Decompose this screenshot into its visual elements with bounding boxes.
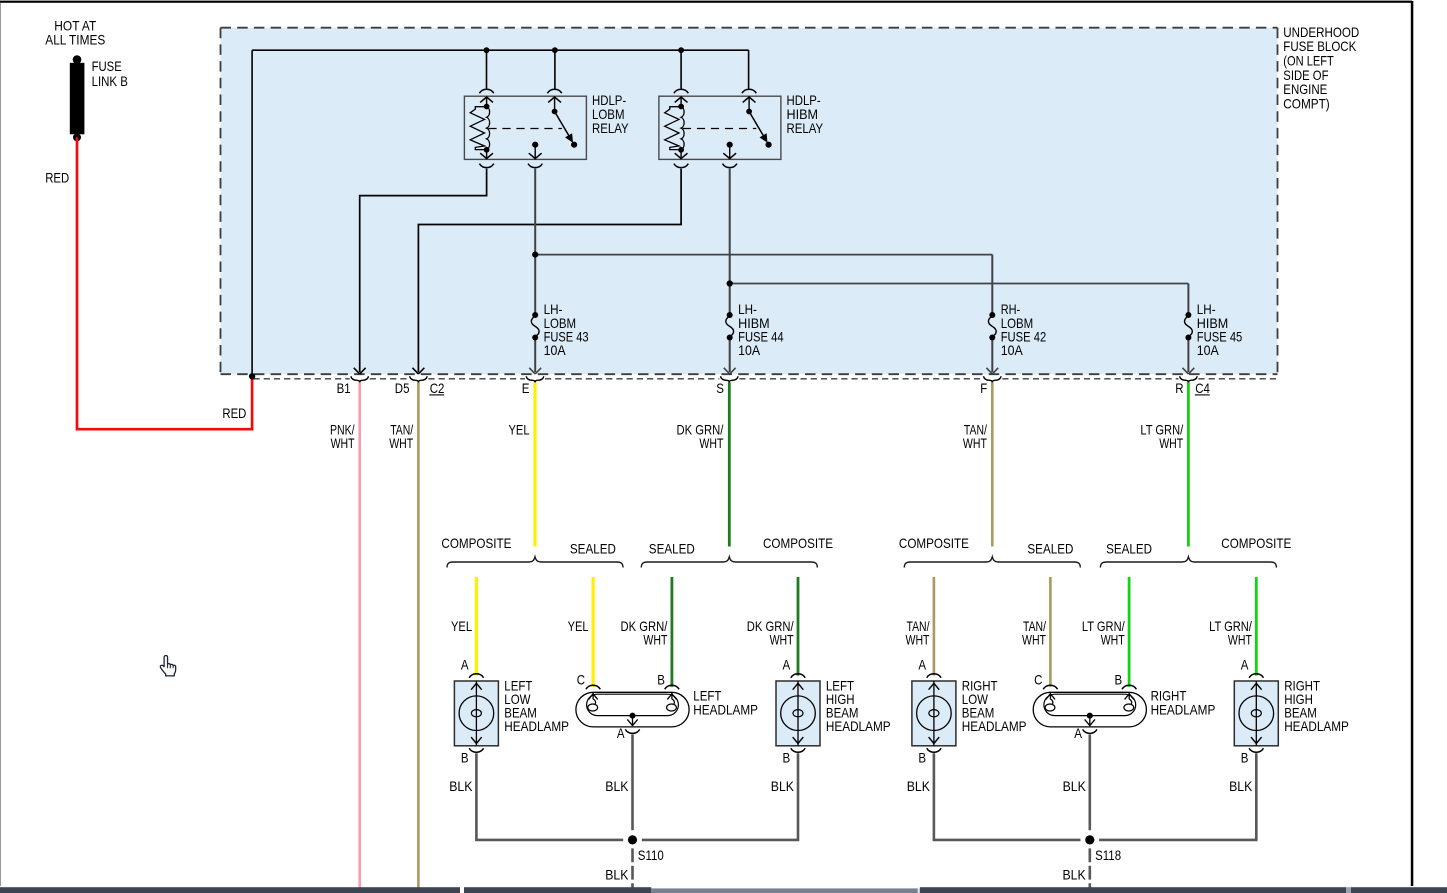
wire TAN/WHT wire to right headlamp C bbox=[1049, 577, 1052, 687]
wire BLK below S110 (dashed continuation) bbox=[631, 848, 634, 893]
label YEL (left sealed C) bbox=[568, 619, 589, 634]
wire BLK from right headlamp A to S118 bbox=[1089, 734, 1092, 830]
label: HOT AT ALL TIMES bbox=[45, 18, 105, 47]
svg-text:WHT: WHT bbox=[389, 436, 413, 451]
label pin A of LEFT LOW BEAM HEADLAMP bbox=[461, 657, 469, 672]
svg-text:E: E bbox=[522, 381, 530, 396]
svg-text:BLK: BLK bbox=[907, 779, 930, 794]
wire YEL wire to left low beam A bbox=[475, 577, 478, 676]
svg-text:B: B bbox=[918, 751, 926, 766]
label LT GRN/WHT (right high A) bbox=[1209, 619, 1252, 648]
svg-text:R: R bbox=[1175, 381, 1183, 396]
svg-text:B: B bbox=[1115, 672, 1123, 687]
svg-text:BLK: BLK bbox=[605, 868, 628, 883]
label pin B of RIGHT LOW BEAM HEADLAMP bbox=[918, 751, 926, 766]
connector pin F bbox=[984, 376, 1002, 382]
connector pin E bbox=[526, 376, 544, 382]
wire: B+ bus inside fuse block bbox=[252, 50, 748, 376]
label pin C of RIGHT HEADLAMP bbox=[1034, 672, 1042, 687]
label LT GRN/WHT bbox=[1140, 423, 1183, 452]
svg-text:BLK: BLK bbox=[1063, 779, 1086, 794]
label LT GRN/WHT (right sealed B) bbox=[1082, 619, 1125, 648]
fuse FUSE 42 (RHLOBM) 10A bbox=[988, 312, 996, 341]
label BLK (S110) bbox=[605, 868, 628, 883]
wire: branch from E to RH-LOBM fuse (F) bbox=[535, 255, 998, 374]
wire RED from fuse link to fuse block B1 feed bbox=[77, 137, 252, 429]
label DK GRN/WHT (left high A) bbox=[747, 619, 794, 648]
label: FUSE LINK B bbox=[92, 59, 128, 89]
wire DK GRN/WHT from S bbox=[728, 382, 731, 546]
node: junction dot on S wire bbox=[727, 280, 733, 286]
svg-text:HEADLAMP: HEADLAMP bbox=[1284, 719, 1349, 734]
svg-text:COMPT): COMPT) bbox=[1283, 96, 1329, 111]
label B1 bbox=[337, 381, 351, 396]
svg-text:COMPOSITE: COMPOSITE bbox=[899, 536, 969, 551]
lamp RIGHT HIGH BEAM HEADLAMP bbox=[1234, 674, 1278, 752]
svg-text:YEL: YEL bbox=[509, 423, 530, 438]
label pin A of LEFT HEADLAMP bbox=[617, 726, 625, 741]
label BLK (left high) bbox=[771, 779, 794, 794]
wire BLK from right low beam B to S118 bbox=[934, 753, 1081, 840]
svg-text:10A: 10A bbox=[544, 343, 567, 358]
wire: LOBM relay coil to connector B1 bbox=[354, 169, 487, 374]
label pin A of RIGHT HIGH BEAM HEADLAMP bbox=[1241, 657, 1249, 672]
splice brace: F wire COMPOSITE/SEALED bbox=[904, 557, 1080, 568]
svg-text:WHT: WHT bbox=[643, 633, 667, 648]
label DK GRN/WHT (left sealed B) bbox=[621, 619, 668, 648]
svg-text:10A: 10A bbox=[1001, 343, 1024, 358]
wire PNK/WHT from B1 bbox=[358, 382, 361, 888]
label C2 (connector name, underlined) bbox=[429, 381, 444, 396]
svg-text:A: A bbox=[918, 657, 926, 672]
label: HDLP-LOBM RELAY bbox=[592, 93, 629, 136]
label SEALED (right headlamp high) bbox=[1106, 542, 1152, 557]
lamp LEFT HEADLAMP (sealed beam) bbox=[576, 685, 689, 733]
svg-text:RELAY: RELAY bbox=[592, 121, 629, 136]
fuse FUSE 45 (LHHIBM) 10A bbox=[1185, 312, 1193, 341]
svg-text:(ON LEFT: (ON LEFT bbox=[1283, 54, 1334, 69]
label COMPOSITE (right low) bbox=[899, 536, 969, 551]
wire: LOBM relay output to LH-LOBM fuse and connector E bbox=[529, 169, 541, 374]
svg-text:A: A bbox=[1074, 726, 1082, 741]
label pin A of LEFT HIGH BEAM HEADLAMP bbox=[783, 657, 791, 672]
label D5 bbox=[395, 381, 410, 396]
connector pin R bbox=[1180, 376, 1198, 382]
svg-text:D5: D5 bbox=[395, 381, 410, 396]
svg-text:WHT: WHT bbox=[1101, 633, 1125, 648]
label: LH HIBM FUSE 45 10A bbox=[1197, 302, 1243, 358]
wire TAN/WHT from D5 bbox=[417, 382, 420, 888]
label pin B of LEFT HEADLAMP bbox=[657, 672, 665, 687]
label BLK (right low) bbox=[907, 779, 930, 794]
lamp LEFT LOW BEAM HEADLAMP bbox=[454, 674, 498, 752]
svg-text:C: C bbox=[577, 672, 585, 687]
svg-text:WHT: WHT bbox=[963, 436, 987, 451]
label: LEFT HEADLAMP bbox=[693, 689, 758, 718]
label YEL bbox=[509, 423, 530, 438]
label pin A of RIGHT LOW BEAM HEADLAMP bbox=[918, 657, 926, 672]
svg-text:HEADLAMP: HEADLAMP bbox=[504, 719, 569, 734]
label RED (upper) bbox=[45, 170, 69, 185]
svg-text:RED: RED bbox=[222, 406, 246, 421]
svg-text:BLK: BLK bbox=[1229, 779, 1252, 794]
lamp LEFT HIGH BEAM HEADLAMP bbox=[776, 674, 820, 752]
svg-text:LINK B: LINK B bbox=[92, 74, 128, 89]
svg-text:SIDE OF: SIDE OF bbox=[1283, 68, 1328, 83]
connector pin S bbox=[721, 376, 739, 382]
svg-text:B: B bbox=[1241, 751, 1249, 766]
svg-text:BLK: BLK bbox=[605, 779, 628, 794]
label: LEFT HIGH BEAM HEADLAMP bbox=[826, 678, 891, 734]
wire: HIBM relay coil to connector D5 bbox=[413, 169, 682, 374]
label DK GRN/WHT bbox=[677, 423, 724, 452]
svg-text:A: A bbox=[617, 726, 625, 741]
svg-text:C2: C2 bbox=[430, 381, 445, 396]
fuse link B bbox=[70, 55, 85, 141]
svg-text:HDLP-: HDLP- bbox=[592, 93, 626, 108]
label RED (lower) bbox=[222, 406, 246, 421]
svg-text:WHT: WHT bbox=[331, 436, 355, 451]
splice brace: S wire SEALED/COMPOSITE bbox=[641, 557, 817, 568]
connector pin D5 bbox=[410, 376, 428, 382]
wire TAN/WHT wire to right low beam A bbox=[933, 577, 936, 676]
wire BLK from left low beam B to S110 bbox=[476, 753, 623, 840]
lamp RIGHT HEADLAMP (sealed beam) bbox=[1033, 685, 1146, 733]
label BLK (left low) bbox=[449, 779, 472, 794]
svg-text:RELAY: RELAY bbox=[787, 121, 824, 136]
wire YEL from E bbox=[533, 382, 536, 546]
wire: branch from S to LH-HIBM fuse (R) bbox=[730, 284, 1195, 375]
svg-text:B: B bbox=[461, 751, 469, 766]
label S bbox=[716, 381, 724, 396]
label C4 (connector name, underlined) bbox=[1195, 381, 1210, 396]
label BLK (right headlamp) bbox=[1063, 779, 1086, 794]
label COMPOSITE (left low) bbox=[441, 536, 511, 551]
svg-text:WHT: WHT bbox=[906, 633, 930, 648]
wire TAN/WHT from F bbox=[991, 382, 994, 546]
svg-text:ALL TIMES: ALL TIMES bbox=[45, 32, 105, 47]
fuse FUSE 43 (LHLOBM) 10A bbox=[531, 312, 539, 341]
label TAN/WHT (right sealed C) bbox=[1022, 619, 1046, 648]
svg-text:FUSE BLOCK: FUSE BLOCK bbox=[1283, 39, 1356, 54]
svg-text:YEL: YEL bbox=[451, 619, 472, 634]
svg-text:C4: C4 bbox=[1195, 381, 1210, 396]
label PNK/WHT bbox=[330, 423, 355, 452]
node: bus junction dots bbox=[484, 47, 684, 53]
svg-text:COMPOSITE: COMPOSITE bbox=[763, 536, 833, 551]
label R bbox=[1175, 381, 1183, 396]
label pin A of RIGHT HEADLAMP bbox=[1074, 726, 1082, 741]
label BLK (right high) bbox=[1229, 779, 1252, 794]
svg-text:A: A bbox=[1241, 657, 1249, 672]
svg-text:HOT AT: HOT AT bbox=[54, 18, 96, 33]
label S118 bbox=[1095, 848, 1121, 863]
wire LT GRN/WHT from R bbox=[1187, 382, 1190, 546]
svg-text:HDLP-: HDLP- bbox=[787, 93, 821, 108]
wire: HIBM relay output to LH-HIBM fuse and connector S bbox=[724, 169, 736, 374]
relay HDLP-HIBM RELAY bbox=[659, 89, 781, 167]
svg-text:WHT: WHT bbox=[1022, 633, 1046, 648]
svg-text:WHT: WHT bbox=[1159, 436, 1183, 451]
label YEL (left low) bbox=[451, 619, 472, 634]
svg-text:SEALED: SEALED bbox=[570, 542, 616, 557]
label SEALED (left headlamp high) bbox=[649, 542, 695, 557]
label TAN/WHT (F) bbox=[963, 423, 987, 452]
svg-text:S: S bbox=[716, 381, 724, 396]
svg-text:ENGINE: ENGINE bbox=[1283, 82, 1327, 97]
label TAN/WHT bbox=[389, 423, 413, 452]
relay HDLP-LOBM RELAY bbox=[464, 89, 586, 167]
wire YEL wire to left headlamp C bbox=[591, 577, 594, 687]
svg-text:BLK: BLK bbox=[1063, 868, 1086, 883]
label: RIGHT HEADLAMP bbox=[1151, 689, 1216, 718]
label pin C of LEFT HEADLAMP bbox=[577, 672, 585, 687]
fuse FUSE 44 (LHHIBM) 10A bbox=[726, 312, 734, 341]
label pin B of RIGHT HIGH BEAM HEADLAMP bbox=[1241, 751, 1249, 766]
label S110 bbox=[638, 848, 664, 863]
svg-text:S110: S110 bbox=[638, 848, 664, 863]
svg-text:B: B bbox=[783, 751, 791, 766]
label: RIGHT LOW BEAM HEADLAMP bbox=[962, 678, 1027, 734]
svg-text:A: A bbox=[783, 657, 791, 672]
lamp RIGHT LOW BEAM HEADLAMP bbox=[912, 674, 956, 752]
svg-text:HEADLAMP: HEADLAMP bbox=[693, 702, 758, 717]
node: junction dot on E wire bbox=[532, 252, 538, 258]
label pin B of LEFT HIGH BEAM HEADLAMP bbox=[783, 751, 791, 766]
svg-text:10A: 10A bbox=[1197, 343, 1220, 358]
wire LT GRN/WHT wire to right headlamp B bbox=[1128, 577, 1131, 687]
node: splice S118 bbox=[1085, 835, 1094, 844]
svg-text:FUSE: FUSE bbox=[92, 59, 122, 74]
svg-text:YEL: YEL bbox=[568, 619, 589, 634]
label COMPOSITE (left high) bbox=[763, 536, 833, 551]
label F bbox=[980, 381, 987, 396]
label E bbox=[522, 381, 530, 396]
svg-text:RED: RED bbox=[45, 170, 69, 185]
svg-text:UNDERHOOD: UNDERHOOD bbox=[1283, 25, 1359, 40]
svg-text:10A: 10A bbox=[738, 343, 761, 358]
label: LH LOBM FUSE 43 10A bbox=[544, 302, 589, 358]
svg-text:C: C bbox=[1034, 672, 1042, 687]
svg-text:WHT: WHT bbox=[1228, 633, 1252, 648]
svg-text:WHT: WHT bbox=[699, 436, 723, 451]
wire DK GRN/WHT wire to left high beam A bbox=[797, 577, 800, 676]
svg-text:WHT: WHT bbox=[770, 633, 794, 648]
svg-text:A: A bbox=[461, 657, 469, 672]
wire BLK from right high beam B to S118 bbox=[1099, 753, 1256, 840]
connector pin B1 bbox=[351, 376, 369, 382]
label: HDLP-HIBM RELAY bbox=[787, 93, 824, 136]
label TAN/WHT (right low A) bbox=[906, 619, 930, 648]
svg-text:HEADLAMP: HEADLAMP bbox=[962, 719, 1027, 734]
wire BLK below S118 (dashed continuation) bbox=[1089, 848, 1092, 893]
underhood fuse block box (dashed, blue) bbox=[221, 28, 1278, 375]
label: LH HIBM FUSE 44 10A bbox=[738, 302, 784, 358]
svg-text:COMPOSITE: COMPOSITE bbox=[441, 536, 511, 551]
node: splice S110 bbox=[628, 835, 637, 844]
label BLK (S118) bbox=[1063, 868, 1086, 883]
svg-text:SEALED: SEALED bbox=[1106, 542, 1152, 557]
label pin B of LEFT LOW BEAM HEADLAMP bbox=[461, 751, 469, 766]
label COMPOSITE (right high) bbox=[1221, 536, 1291, 551]
label: LEFT LOW BEAM HEADLAMP bbox=[504, 678, 569, 734]
svg-text:SEALED: SEALED bbox=[649, 542, 695, 557]
label pin B of RIGHT HEADLAMP bbox=[1115, 672, 1123, 687]
splice brace: R wire SEALED/COMPOSITE bbox=[1100, 557, 1276, 568]
svg-text:LOBM: LOBM bbox=[592, 107, 625, 122]
svg-text:B1: B1 bbox=[337, 381, 351, 396]
wire BLK from left high beam B to S110 bbox=[642, 753, 798, 840]
label: RH LOBM FUSE 42 10A bbox=[1001, 302, 1046, 358]
label: UNDERHOOD FUSE BLOCK (ON LEFT SIDE OF ENGINE COMPT) bbox=[1283, 25, 1359, 112]
svg-text:HEADLAMP: HEADLAMP bbox=[826, 719, 891, 734]
connector row dashed line bbox=[254, 378, 1278, 380]
label SEALED (left headlamp low) bbox=[570, 542, 616, 557]
node: junction dot at fuse block entry bbox=[249, 373, 255, 379]
label: RIGHT HIGH BEAM HEADLAMP bbox=[1284, 678, 1349, 734]
svg-text:HEADLAMP: HEADLAMP bbox=[1151, 702, 1216, 717]
svg-text:BLK: BLK bbox=[771, 779, 794, 794]
label SEALED (right headlamp low) bbox=[1027, 542, 1073, 557]
wire LT GRN/WHT wire to right high beam A bbox=[1255, 577, 1258, 676]
svg-text:F: F bbox=[980, 381, 987, 396]
svg-text:BLK: BLK bbox=[449, 779, 472, 794]
wire DK GRN/WHT wire to left headlamp B bbox=[671, 577, 674, 687]
mouse hand cursor bbox=[160, 656, 175, 676]
svg-text:S118: S118 bbox=[1095, 848, 1121, 863]
splice brace: E wire COMPOSITE/SEALED bbox=[447, 557, 623, 568]
svg-text:B: B bbox=[657, 672, 665, 687]
wire BLK from left headlamp A to S110 bbox=[631, 734, 634, 830]
label BLK (left headlamp) bbox=[605, 779, 628, 794]
svg-text:HIBM: HIBM bbox=[787, 107, 819, 122]
svg-text:SEALED: SEALED bbox=[1027, 542, 1073, 557]
bottom scrollbar/taskbar bbox=[0, 887, 1447, 893]
svg-text:COMPOSITE: COMPOSITE bbox=[1221, 536, 1291, 551]
